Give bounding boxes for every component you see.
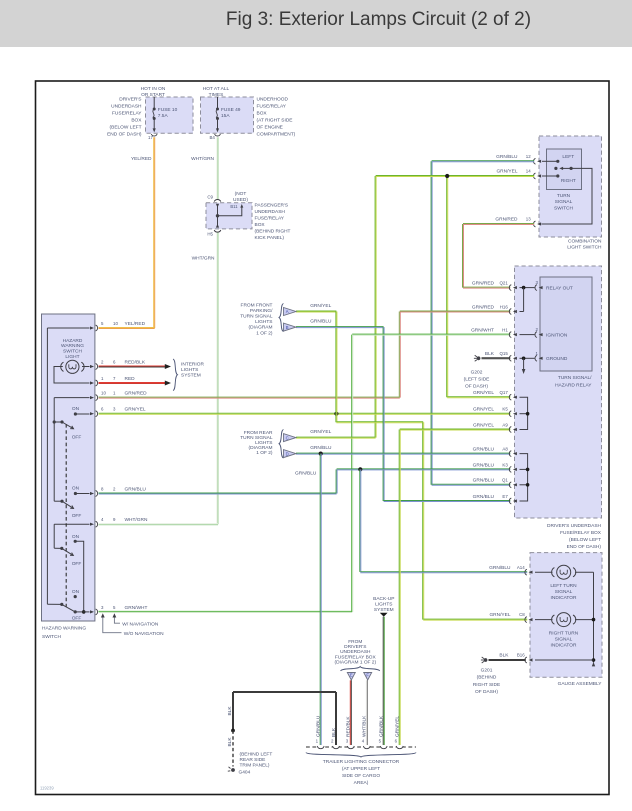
- svg-text:Q15: Q15: [499, 351, 508, 356]
- relay pin 1: [535, 351, 543, 361]
- svg-text:OFF: OFF: [72, 561, 82, 567]
- ground G202 (left side of dash): [464, 355, 490, 389]
- svg-text:TURN SIGNAL: TURN SIGNAL: [240, 314, 273, 320]
- fuse 10 7.5A: [148, 97, 178, 140]
- svg-text:RELAY OUT: RELAY OUT: [546, 285, 573, 291]
- svg-text:A8: A8: [502, 447, 508, 452]
- relay box pin Q1 GRN/BLU: [473, 478, 517, 488]
- svg-text:(DIAGRAM: (DIAGRAM: [249, 325, 273, 331]
- wire GRN/RED from hazard pin 10/1 to H16: [99, 311, 511, 398]
- svg-text:UNDERDASH: UNDERDASH: [340, 649, 371, 655]
- hazard switch section 3: [54, 534, 83, 612]
- svg-text:SIDE OF CARGO: SIDE OF CARGO: [342, 773, 380, 779]
- wire RED/BLK to interior lights system: [99, 364, 172, 369]
- svg-text:TRAILER LIGHTING CONNECTOR: TRAILER LIGHTING CONNECTOR: [323, 759, 400, 765]
- svg-text:B11: B11: [230, 204, 238, 209]
- svg-text:GRN/YEL: GRN/YEL: [395, 716, 401, 737]
- svg-text:(DIAGRAM: (DIAGRAM: [249, 445, 273, 451]
- svg-text:UNDERHOOD: UNDERHOOD: [257, 96, 289, 102]
- svg-text:OFF: OFF: [72, 513, 82, 519]
- diagram border frame: [36, 81, 610, 795]
- svg-text:(BELOW LEFT: (BELOW LEFT: [110, 124, 142, 130]
- hazard pin 6/3 GRN/YEL: [90, 407, 146, 417]
- svg-text:WHT/BLK: WHT/BLK: [362, 715, 368, 737]
- connector triangle C: [284, 434, 297, 442]
- svg-text:14: 14: [526, 169, 531, 174]
- svg-text:OFF: OFF: [72, 616, 82, 622]
- svg-text:RED/BLK: RED/BLK: [125, 359, 146, 365]
- wire GRN/BLU from combination switch pin 12 down to Q1: [431, 154, 534, 485]
- right turn signal indicator bulb: [535, 613, 594, 649]
- from driver's underdash fuse/relay box text: [335, 639, 380, 671]
- svg-text:(BEHIND: (BEHIND: [477, 675, 497, 681]
- wire GRN/WHT from hazard pin 3/5 to H1: [99, 334, 511, 612]
- connector H5: [207, 230, 220, 236]
- svg-text:REAR SIDE: REAR SIDE: [240, 757, 266, 763]
- gauge pin B16: [499, 653, 532, 663]
- wire GRN/BLU from front turn signal B to E7: [296, 319, 510, 502]
- turn signal switch (inner box): [547, 149, 582, 211]
- from rear turn signal lights text: [240, 430, 283, 459]
- svg-text:PARKING/: PARKING/: [250, 308, 273, 314]
- svg-text:GRN/BLU: GRN/BLU: [310, 319, 332, 325]
- svg-text:GRN/YEL: GRN/YEL: [473, 390, 494, 396]
- svg-text:GRN/YEL: GRN/YEL: [489, 612, 510, 618]
- svg-text:SIGNAL: SIGNAL: [555, 637, 573, 643]
- svg-text:BOX: BOX: [257, 110, 268, 116]
- svg-text:WARNING: WARNING: [61, 343, 84, 349]
- relay box pin K5 GRN/YEL: [473, 407, 517, 417]
- svg-text:TURN SIGNAL/: TURN SIGNAL/: [558, 375, 592, 381]
- svg-text:FUSE/RELAY: FUSE/RELAY: [255, 215, 285, 221]
- wire GRN/BLU from rear turn signal D to A8 and trailer pin 1: [296, 445, 510, 745]
- svg-text:LIGHTS: LIGHTS: [255, 319, 272, 325]
- svg-text:(BEHIND LEFT: (BEHIND LEFT: [240, 752, 273, 758]
- svg-text:10: 10: [101, 391, 106, 396]
- svg-text:OF ENGINE: OF ENGINE: [257, 124, 283, 130]
- relay pin 2: [535, 327, 543, 337]
- svg-text:GRN/BLU: GRN/BLU: [496, 154, 518, 160]
- svg-text:Fig 3: Exterior Lamps Circuit: Fig 3: Exterior Lamps Circuit (2 of 2): [226, 9, 531, 30]
- svg-text:119239: 119239: [40, 786, 54, 791]
- from front parking/turn signal lights text: [240, 303, 283, 337]
- svg-text:C8: C8: [519, 612, 525, 617]
- passenger's underdash fuse/relay box: [206, 202, 291, 241]
- svg-text:USED): USED): [233, 197, 248, 203]
- svg-text:GRN/BLU: GRN/BLU: [473, 494, 495, 500]
- relay internal wiring H1: [520, 334, 535, 336]
- svg-text:INDICATOR: INDICATOR: [551, 595, 577, 601]
- ground G201 (behind right side of dash): [473, 657, 500, 695]
- svg-text:FROM REAR: FROM REAR: [244, 430, 273, 436]
- svg-text:ON: ON: [72, 534, 80, 540]
- svg-text:COMBINATION: COMBINATION: [568, 238, 602, 244]
- svg-text:GRN/YEL: GRN/YEL: [310, 429, 331, 435]
- svg-text:10: 10: [113, 321, 118, 326]
- hazard warning switch light label: [61, 338, 84, 360]
- wire BLK to ground G201: [489, 660, 526, 661]
- connector triangle B: [284, 323, 297, 331]
- svg-text:HAZARD WARNING: HAZARD WARNING: [42, 626, 86, 632]
- wire WHT/BLK from triangle F to trailer pin 4: [366, 680, 367, 745]
- wire GRN/YEL from A9 down to trailer pin 6: [399, 429, 510, 745]
- svg-text:WHT/GRN: WHT/GRN: [125, 517, 148, 523]
- internal bracket Q17/K5/A9: [520, 397, 530, 429]
- hazard warning switch box: [42, 314, 95, 640]
- svg-text:GAUGE ASSEMBLY: GAUGE ASSEMBLY: [558, 681, 603, 687]
- w/ navigation, w/o navigation arrows: [101, 613, 164, 637]
- svg-text:A: A: [286, 309, 289, 314]
- svg-text:DRIVER'S: DRIVER'S: [344, 644, 366, 650]
- svg-text:GRN/YEL: GRN/YEL: [310, 303, 331, 309]
- svg-text:(NOT: (NOT: [235, 191, 247, 197]
- wire RED/BLK from triangle E to trailer pin 3: [350, 680, 351, 745]
- svg-text:W/O NAVIGATION: W/O NAVIGATION: [124, 631, 164, 637]
- hazard pin 2/6 RED/BLK: [90, 359, 146, 369]
- relay box pin E7 GRN/BLU: [473, 494, 517, 504]
- svg-text:INDICATOR: INDICATOR: [551, 643, 577, 649]
- relay box pin H16 GRN/RED: [472, 304, 517, 314]
- svg-text:GRN/YEL: GRN/YEL: [473, 422, 494, 428]
- svg-text:C9: C9: [207, 195, 213, 200]
- svg-text:BOX: BOX: [131, 117, 142, 123]
- trailer pin label RED/BLK: [346, 716, 352, 737]
- wire GRN/YEL from front turn signal A: [296, 303, 337, 414]
- svg-text:LEFT: LEFT: [562, 154, 574, 160]
- svg-text:ON: ON: [72, 485, 80, 491]
- svg-text:B: B: [286, 325, 289, 330]
- svg-text:GRN/RED: GRN/RED: [472, 281, 495, 287]
- svg-text:RIGHT TURN: RIGHT TURN: [549, 631, 579, 637]
- gauge assembly (dashed box): [530, 553, 602, 688]
- svg-text:GRN/BLU: GRN/BLU: [473, 478, 495, 484]
- svg-text:YEL/RED: YEL/RED: [125, 321, 146, 327]
- mechanical linkage (dashed): [65, 424, 67, 607]
- svg-text:FROM FRONT: FROM FRONT: [241, 303, 273, 309]
- trailer pin label GRN/BLU: [316, 715, 322, 737]
- svg-text:SWITCH: SWITCH: [42, 634, 61, 640]
- svg-text:GRN/YEL: GRN/YEL: [473, 407, 494, 413]
- svg-text:LIGHTS: LIGHTS: [255, 440, 272, 446]
- svg-text:HAZARD RELAY: HAZARD RELAY: [555, 383, 592, 389]
- svg-text:GRN/BLU: GRN/BLU: [295, 470, 317, 476]
- svg-text:GRN/WHT: GRN/WHT: [125, 605, 148, 611]
- svg-text:(LEFT SIDE: (LEFT SIDE: [464, 377, 490, 383]
- relay box pin H1 GRN/WHT: [471, 328, 517, 338]
- svg-text:DRIVER'S: DRIVER'S: [119, 96, 141, 102]
- svg-text:1 OF 2): 1 OF 2): [256, 450, 273, 456]
- svg-text:GRN/YEL: GRN/YEL: [125, 407, 146, 413]
- svg-text:GROUND: GROUND: [546, 356, 568, 362]
- wire GRN/YEL from hazard pin 6/3 to K5, front turn A, branch to gauge C8: [99, 412, 528, 620]
- hazard pin 1/7 RED: [90, 376, 135, 386]
- hazard switch section 1 (pin 6/3): [53, 406, 90, 440]
- svg-text:SIGNAL: SIGNAL: [555, 199, 573, 205]
- internal wiring of passenger box, pin B11 (not used): [216, 191, 249, 227]
- svg-text:GRN/BLU: GRN/BLU: [489, 565, 511, 571]
- svg-text:SYSTEM: SYSTEM: [374, 607, 394, 613]
- svg-text:LIGHT SWITCH: LIGHT SWITCH: [567, 245, 602, 251]
- svg-text:E7: E7: [502, 494, 508, 499]
- svg-text:YEL/RED: YEL/RED: [131, 156, 152, 162]
- svg-text:FUSE/RELAY: FUSE/RELAY: [257, 103, 287, 109]
- svg-text:G404: G404: [239, 770, 251, 776]
- svg-text:D: D: [286, 451, 289, 456]
- svg-text:B4: B4: [210, 135, 216, 140]
- svg-text:H16: H16: [500, 304, 509, 309]
- connector triangle D: [284, 450, 297, 458]
- svg-text:UNDERDASH: UNDERDASH: [111, 103, 142, 109]
- svg-text:GRN/RED: GRN/RED: [495, 217, 518, 223]
- relay box pin Q17 GRN/YEL: [473, 390, 517, 400]
- connector triangle F: [364, 673, 372, 681]
- svg-text:BLK: BLK: [227, 737, 233, 747]
- svg-text:TURN: TURN: [557, 193, 571, 199]
- wire RED to interior lights system: [99, 381, 172, 386]
- svg-text:BLK: BLK: [499, 653, 509, 659]
- wire GRN/BLU from hazard pin 8/2 to K3 and gauge A14: [99, 467, 528, 572]
- svg-text:GRN/BLU: GRN/BLU: [473, 462, 495, 468]
- svg-text:12: 12: [526, 154, 531, 159]
- svg-text:BLK: BLK: [485, 351, 495, 357]
- svg-text:1 OF 2): 1 OF 2): [256, 330, 273, 336]
- svg-text:UNDERDASH: UNDERDASH: [255, 209, 286, 215]
- svg-text:PASSENGER'S: PASSENGER'S: [255, 202, 289, 208]
- svg-text:HOT IN ON: HOT IN ON: [141, 86, 166, 92]
- wire GRN/YEL from rear turn signal C up to comb pin 14, branch to Q17: [375, 169, 534, 438]
- trailer pin label WHT/BLK: [362, 715, 368, 737]
- svg-text:FUSE 10: FUSE 10: [158, 107, 178, 113]
- combination light switch (dashed box): [539, 136, 602, 251]
- connector triangle E: [347, 673, 355, 681]
- svg-text:H1: H1: [502, 328, 508, 333]
- svg-text:BACK-UP: BACK-UP: [373, 596, 394, 602]
- svg-text:Q17: Q17: [499, 390, 508, 395]
- svg-text:TRIM PANEL): TRIM PANEL): [240, 763, 270, 769]
- svg-text:COMPARTMENT): COMPARTMENT): [257, 131, 296, 137]
- turn signal switch contacts and lever: [542, 160, 593, 224]
- svg-text:LIGHTS: LIGHTS: [181, 367, 198, 373]
- svg-text:Q21: Q21: [499, 281, 508, 286]
- underhood fuse/relay box (fuse 49): [201, 86, 296, 137]
- hazard pin 8/2 GRN/BLU: [90, 486, 146, 496]
- relay internal wiring Q15/ground stub: [520, 357, 535, 375]
- svg-text:K5: K5: [502, 407, 508, 412]
- left turn signal indicator bulb: [535, 565, 594, 601]
- svg-text:TIMES: TIMES: [209, 92, 224, 98]
- svg-text:W/ NAVIGATION: W/ NAVIGATION: [122, 622, 159, 628]
- svg-text:FUSE 49: FUSE 49: [221, 107, 241, 113]
- svg-text:GRN/RED: GRN/RED: [125, 391, 148, 397]
- svg-text:END OF DASH): END OF DASH): [107, 131, 142, 137]
- gauge pin C8: [489, 612, 532, 622]
- svg-text:OF DASH): OF DASH): [465, 384, 488, 390]
- wire WHT/GRN from fuse 49 through C9 / passenger box to hazard pin 4/9: [99, 137, 219, 525]
- svg-text:FUSE/RELAY BOX: FUSE/RELAY BOX: [335, 654, 377, 660]
- hazard switch section 4 (pin 3/5): [47, 589, 89, 622]
- svg-text:DRIVER'S UNDERDASH: DRIVER'S UNDERDASH: [547, 523, 601, 529]
- hazard internal rail from pin 4/9: [54, 524, 89, 548]
- interior lights system label: [173, 359, 204, 391]
- svg-text:(DIAGRAM 1 OF 2): (DIAGRAM 1 OF 2): [335, 659, 377, 665]
- svg-text:FUSE/RELAY: FUSE/RELAY: [112, 110, 142, 116]
- pin 13: [526, 217, 541, 227]
- svg-text:AREA): AREA): [354, 780, 369, 786]
- svg-text:FUSE/RELAY BOX: FUSE/RELAY BOX: [560, 530, 602, 536]
- internal bracket A8/K3/Q1/E7: [520, 454, 530, 501]
- svg-text:H5: H5: [207, 231, 213, 236]
- wire BLK from trailer pin 2 to ground G404: [227, 692, 337, 767]
- gauge internal common wire: [535, 572, 595, 666]
- hazard switch light bulb: [54, 360, 90, 383]
- svg-text:LEFT TURN: LEFT TURN: [550, 583, 577, 589]
- svg-text:WHT/GRN: WHT/GRN: [192, 256, 215, 262]
- svg-text:K3: K3: [502, 462, 508, 467]
- svg-text:(BEHIND RIGHT: (BEHIND RIGHT: [255, 228, 291, 234]
- turn signal/hazard relay (inner box): [540, 277, 592, 389]
- svg-text:(AT RIGHT SIDE: (AT RIGHT SIDE: [257, 117, 293, 123]
- relay box pin A8 GRN/BLU: [473, 447, 517, 457]
- driver's underdash fuse/relay box (top, fuse 10): [107, 86, 193, 137]
- pin 12: [526, 154, 558, 164]
- hazard internal rail A (from pin 5/10): [47, 328, 89, 604]
- relay box pin Q15 BLK: [485, 351, 517, 361]
- svg-text:A14: A14: [517, 565, 525, 570]
- ground G404 (behind left rear side trim panel): [228, 752, 273, 776]
- svg-text:END OF DASH): END OF DASH): [567, 544, 602, 550]
- svg-text:BLK: BLK: [331, 727, 337, 737]
- svg-text:7.5A: 7.5A: [158, 113, 169, 119]
- pin 14: [526, 169, 558, 179]
- svg-text:FROM: FROM: [348, 639, 362, 645]
- fuse 49 15A: [210, 97, 241, 140]
- svg-text:C: C: [286, 435, 289, 440]
- svg-text:BLK: BLK: [227, 706, 233, 716]
- svg-text:GRN/BLU: GRN/BLU: [473, 447, 495, 453]
- svg-text:LIGHT: LIGHT: [65, 354, 79, 360]
- wire YEL/RED from fuse 10 to hazard switch pin 5/10: [99, 137, 155, 328]
- hazard internal rail B (pin 10/1 to switches): [54, 398, 89, 502]
- svg-text:(BELOW LEFT: (BELOW LEFT: [569, 537, 601, 543]
- svg-text:SYSTEM: SYSTEM: [181, 372, 201, 378]
- connector C9: [207, 195, 220, 202]
- svg-text:TURN SIGNAL: TURN SIGNAL: [240, 435, 273, 441]
- svg-text:B16: B16: [517, 653, 525, 658]
- svg-text:WHT/GRN: WHT/GRN: [191, 156, 214, 162]
- trailer lighting connector: [306, 739, 416, 787]
- svg-text:E: E: [350, 673, 353, 678]
- svg-text:15A: 15A: [221, 113, 230, 119]
- svg-text:KICK PANEL): KICK PANEL): [255, 235, 285, 241]
- svg-text:OFF: OFF: [72, 434, 82, 440]
- wire GRN/BLK from back-up to trailer pin 5: [383, 617, 384, 745]
- trailer pin label GRN/BLK: [379, 715, 385, 737]
- relay box pin Q21 GRN/RED: [472, 281, 517, 291]
- hazard pin 4/9 WHT/GRN: [90, 517, 148, 527]
- svg-text:RED/BLK: RED/BLK: [346, 716, 352, 737]
- relay pin 3: [535, 280, 543, 290]
- svg-text:ON: ON: [72, 406, 80, 412]
- wire BLK to ground G202: [482, 358, 511, 359]
- svg-text:ON: ON: [72, 589, 80, 595]
- svg-text:F: F: [366, 673, 369, 678]
- connector triangle A: [284, 308, 297, 316]
- relay box pin K3 GRN/BLU: [473, 462, 517, 472]
- svg-text:SWITCH: SWITCH: [63, 349, 82, 355]
- svg-text:INTERIOR: INTERIOR: [181, 361, 204, 367]
- svg-text:GRN/BLU: GRN/BLU: [310, 445, 332, 451]
- svg-text:SWITCH: SWITCH: [554, 205, 573, 211]
- svg-text:RED: RED: [125, 376, 136, 382]
- relay internal wiring Q21/H16: [520, 286, 535, 312]
- svg-text:LIGHTS: LIGHTS: [375, 602, 392, 608]
- relay box pin A9 GRN/YEL: [473, 422, 517, 432]
- svg-text:BOX: BOX: [255, 222, 266, 228]
- svg-text:GRN/RED: GRN/RED: [472, 304, 495, 310]
- hazard pin 10/1 GRN/RED: [90, 391, 147, 401]
- svg-text:OR START: OR START: [141, 92, 165, 98]
- wire GRN/RED from comb pin 13 to relay Q21: [463, 217, 535, 289]
- svg-text:HOT AT ALL: HOT AT ALL: [203, 86, 230, 92]
- svg-text:G201: G201: [481, 668, 493, 674]
- svg-text:HAZARD: HAZARD: [63, 338, 83, 344]
- svg-text:A9: A9: [502, 422, 508, 427]
- svg-text:GRN/BLK: GRN/BLK: [379, 715, 385, 737]
- svg-text:G202: G202: [471, 369, 483, 375]
- trailer pin label BLK: [331, 727, 337, 737]
- svg-text:GRN/BLU: GRN/BLU: [316, 715, 322, 737]
- svg-text:Q1: Q1: [502, 478, 508, 483]
- svg-text:RIGHT SIDE: RIGHT SIDE: [473, 682, 500, 688]
- gauge pin A14: [489, 565, 532, 575]
- svg-text:(AT UPPER LEFT: (AT UPPER LEFT: [342, 766, 380, 772]
- hazard switch section 2 (pin 8/2): [54, 485, 89, 519]
- driver's underdash fuse/relay box (relay area): [515, 266, 602, 550]
- title bar: [0, 0, 632, 47]
- svg-text:RIGHT: RIGHT: [561, 178, 576, 184]
- svg-text:GRN/BLU: GRN/BLU: [125, 486, 147, 492]
- hazard pin 5/10 YEL/RED: [90, 321, 146, 331]
- back-up lights system off-page arrow: [373, 596, 394, 617]
- svg-text:SIGNAL: SIGNAL: [555, 589, 573, 595]
- wire GRN/YEL from rear turn signal C: [296, 429, 376, 438]
- svg-text:13: 13: [526, 217, 531, 222]
- svg-text:GRN/YEL: GRN/YEL: [496, 169, 517, 175]
- svg-text:GRN/WHT: GRN/WHT: [471, 328, 494, 334]
- hazard pin 3/5 GRN/WHT: [90, 605, 147, 615]
- svg-text:OF DASH): OF DASH): [475, 689, 498, 695]
- trailer pin label GRN/YEL: [395, 716, 401, 737]
- svg-text:IGNITION: IGNITION: [546, 333, 568, 339]
- svg-text:17: 17: [148, 135, 153, 140]
